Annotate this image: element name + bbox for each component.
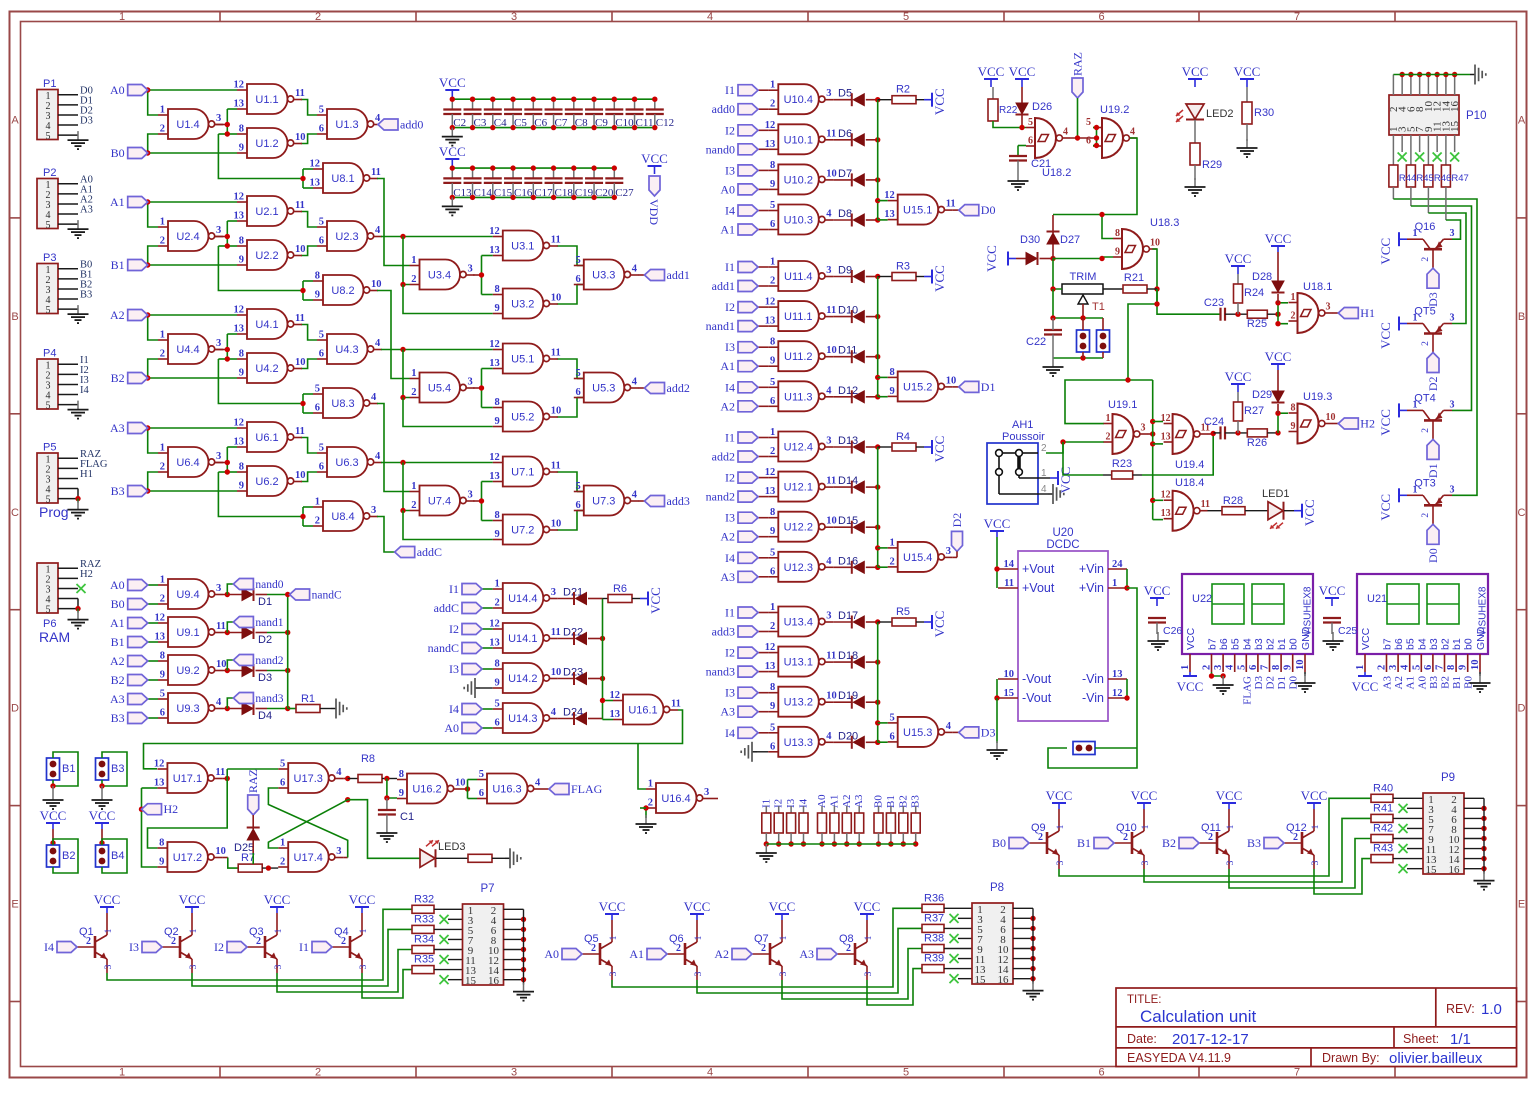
resistor R44: [1392, 135, 1394, 165]
svg-text:11: 11: [551, 235, 561, 246]
net label A2: [128, 310, 148, 321]
wire A0: [148, 89, 237, 91]
svg-text:9: 9: [770, 701, 775, 712]
svg-text:T1: T1: [1092, 301, 1105, 313]
svg-text:11: 11: [551, 627, 561, 638]
schmitt gate U19.1: [1113, 414, 1134, 454]
net label A3: [817, 949, 837, 960]
svg-text:P9: P9: [1441, 772, 1455, 784]
svg-text:C8: C8: [575, 117, 588, 129]
wire U19.3 out: [1332, 423, 1338, 425]
NAND gate U10.2: [778, 164, 819, 194]
svg-text:b1: b1: [1276, 638, 1288, 650]
wire U8.2 input: [218, 245, 227, 247]
svg-text:U18.3: U18.3: [1150, 217, 1179, 229]
svg-text:QT4: QT4: [1414, 392, 1435, 404]
wire bus to U15.3 pin b: [878, 741, 888, 743]
no-connect X: [950, 914, 959, 923]
NAND gate U8.1: [323, 163, 364, 193]
power flag VCC: [1189, 672, 1191, 676]
wire R23 to C24 node: [1133, 474, 1142, 476]
capacitor C17: [532, 168, 534, 178]
svg-text:4: 4: [632, 490, 638, 501]
svg-text:6: 6: [1098, 11, 1104, 23]
svg-text:VCC: VCC: [854, 899, 881, 914]
svg-text:I3: I3: [449, 662, 459, 676]
svg-text:VCC: VCC: [1058, 467, 1073, 494]
svg-text:B3: B3: [80, 290, 92, 301]
NAND gate U11.1: [778, 301, 819, 331]
resistor R42: [1371, 835, 1393, 843]
svg-text:10: 10: [295, 470, 306, 481]
svg-text:+Vout: +Vout: [1022, 562, 1055, 576]
svg-text:10: 10: [1295, 660, 1306, 671]
no-connect X: [1399, 864, 1408, 873]
svg-text:U10.4: U10.4: [784, 94, 813, 106]
svg-text:D1: D1: [258, 596, 272, 608]
svg-text:2: 2: [1421, 513, 1431, 518]
svg-text:6: 6: [770, 219, 775, 230]
wire U14 in a 3: [482, 708, 493, 710]
svg-text:C6: C6: [534, 117, 547, 129]
svg-text:1: 1: [779, 935, 789, 940]
diode D23: [558, 678, 574, 680]
svg-text:DCDC: DCDC: [1046, 539, 1079, 551]
wire feedback to U19.1 pin1: [1065, 289, 1157, 424]
no-connect X: [440, 955, 449, 964]
svg-text:R44: R44: [1399, 173, 1416, 184]
net label A3: [738, 706, 758, 717]
svg-text:13: 13: [154, 778, 165, 789]
svg-text:I2: I2: [725, 471, 735, 485]
svg-text:Q16: Q16: [1415, 221, 1436, 233]
wire bus to R1: [288, 708, 296, 710]
wire in A2: [757, 536, 768, 538]
svg-text:D2: D2: [1426, 377, 1440, 392]
resistor R4: [892, 443, 916, 451]
svg-text:3: 3: [274, 964, 284, 969]
NAND gate U5.3: [584, 373, 625, 403]
wire B3 input: [148, 717, 158, 719]
wire P9 pin 4: [1464, 807, 1484, 809]
wire U7.1 to U7.3: [557, 472, 577, 492]
NAND gate U11.3: [778, 381, 819, 411]
svg-text:D16: D16: [838, 555, 858, 567]
svg-text:12: 12: [1112, 688, 1123, 699]
svg-text:R25: R25: [1247, 318, 1267, 330]
wire jumper loop: [0, 0, 1, 1]
svg-text:VCC: VCC: [1216, 788, 1243, 803]
net label add3: [738, 626, 758, 637]
svg-text:B2: B2: [1162, 836, 1176, 850]
net label A1: [128, 618, 148, 629]
svg-text:B0: B0: [111, 597, 125, 611]
svg-text:5: 5: [1086, 117, 1091, 128]
svg-text:1: 1: [359, 928, 369, 933]
net label RAZ: [1072, 78, 1083, 98]
NAND gate U17.2: [167, 842, 208, 872]
net label I1: [462, 584, 482, 595]
svg-text:13: 13: [234, 437, 245, 448]
svg-text:U11.1: U11.1: [784, 311, 813, 323]
wire in I1: [757, 89, 768, 91]
svg-text:D15: D15: [838, 515, 858, 527]
svg-text:2: 2: [676, 943, 681, 954]
svg-text:8: 8: [239, 462, 244, 473]
wire in A0: [757, 188, 768, 190]
svg-text:13: 13: [310, 178, 321, 189]
NAND gate U13.2: [778, 687, 819, 717]
wire Q3 emitter route: [277, 950, 412, 993]
svg-text:11: 11: [551, 461, 561, 472]
wire in add0: [757, 108, 768, 110]
svg-text:I1: I1: [725, 260, 735, 274]
svg-text:U3.3: U3.3: [592, 270, 615, 282]
svg-text:VCC: VCC: [984, 245, 999, 272]
wire P10 top bus: [1393, 74, 1470, 76]
wire U3.2 to U3.3: [557, 285, 577, 305]
ground: [1332, 632, 1334, 641]
svg-text:R21: R21: [1124, 272, 1144, 284]
capacitor C8: [573, 99, 575, 109]
capacitor C9: [593, 99, 595, 109]
wire U8.3 input: [218, 358, 227, 360]
no-connect X: [440, 975, 449, 984]
svg-text:U16.3: U16.3: [492, 784, 521, 796]
wire in I2: [757, 652, 768, 654]
wire into C23: [1157, 289, 1221, 314]
svg-text:3: 3: [704, 787, 709, 798]
svg-text:8: 8: [315, 271, 320, 282]
svg-text:13: 13: [765, 661, 776, 672]
svg-text:16: 16: [998, 974, 1010, 986]
svg-text:B2: B2: [111, 371, 125, 385]
svg-text:4: 4: [1130, 127, 1135, 138]
svg-text:R30: R30: [1254, 107, 1274, 119]
svg-text:1: 1: [411, 368, 416, 379]
svg-text:b7: b7: [1382, 638, 1394, 650]
ground: [1479, 672, 1481, 676]
svg-text:U1.3: U1.3: [335, 119, 358, 131]
wire P9 pin 6: [1464, 817, 1484, 819]
svg-text:8: 8: [770, 507, 775, 518]
svg-text:I3: I3: [725, 686, 735, 700]
svg-text:Calculation unit: Calculation unit: [1140, 1007, 1257, 1026]
svg-text:3: 3: [1326, 302, 1331, 313]
svg-text:I3: I3: [725, 511, 735, 525]
net label B1: [128, 260, 148, 271]
svg-text:QT5: QT5: [1414, 306, 1435, 318]
svg-text:C14: C14: [474, 187, 493, 199]
wire U18.3 pin8: [1102, 215, 1113, 239]
svg-text:D8: D8: [838, 208, 852, 220]
ground: [1304, 672, 1306, 676]
svg-text:A1: A1: [629, 947, 644, 961]
svg-text:9: 9: [399, 788, 404, 799]
svg-text:C20: C20: [595, 187, 614, 199]
wire U2.1-U2.3: [301, 212, 317, 228]
wire P9 pin 10: [1464, 838, 1484, 840]
svg-text:D18: D18: [838, 650, 858, 662]
svg-text:2: 2: [1377, 665, 1388, 670]
wire U14 in a 1: [482, 628, 493, 630]
power flag VCC: [1008, 258, 1016, 260]
net label D0: [959, 205, 979, 216]
svg-text:REV:: REV:: [1446, 1002, 1475, 1016]
svg-text:3: 3: [1056, 860, 1066, 865]
svg-text:U7.4: U7.4: [428, 496, 451, 508]
svg-text:3: 3: [609, 971, 619, 976]
resistor R32: [412, 905, 434, 913]
svg-text:add2: add2: [712, 450, 735, 464]
wire in nand0: [757, 148, 768, 150]
svg-text:U7.1: U7.1: [511, 467, 534, 479]
svg-text:D0: D0: [981, 203, 996, 217]
wire U17.1 out to U17.3 pin5: [227, 768, 278, 770]
NAND gate U9.2: [168, 655, 209, 685]
NAND gate U11.4: [778, 261, 819, 291]
svg-text:5: 5: [576, 255, 581, 266]
wire down to C1: [387, 779, 397, 799]
svg-text:13: 13: [765, 139, 776, 150]
ground: [1483, 872, 1485, 881]
svg-text:nand0: nand0: [706, 142, 735, 156]
svg-text:9: 9: [770, 356, 775, 367]
net label add2: [738, 451, 758, 462]
capacitor C1: [386, 798, 388, 810]
svg-text:U8.4: U8.4: [331, 511, 354, 523]
svg-text:5: 5: [1236, 665, 1247, 670]
svg-text:3: 3: [694, 971, 704, 976]
svg-text:3: 3: [826, 88, 831, 99]
net label D3: [959, 727, 979, 738]
net label nand1: [738, 321, 758, 332]
svg-text:RAZ: RAZ: [246, 769, 260, 793]
ground: [1470, 74, 1475, 76]
svg-text:D20: D20: [838, 730, 858, 742]
net label I2: [227, 942, 247, 953]
resistor R35: [412, 966, 434, 974]
wire R37 to P8: [944, 927, 972, 929]
svg-text:VCC: VCC: [264, 892, 291, 907]
svg-text:4: 4: [707, 11, 713, 23]
wire A2 input: [148, 660, 158, 662]
wire U8.4 out to addC: [377, 517, 395, 553]
resistor R23: [1112, 471, 1133, 479]
svg-text:8: 8: [495, 659, 500, 670]
schmitt gate U18.3: [1122, 229, 1143, 269]
svg-text:10: 10: [551, 406, 562, 417]
svg-text:9: 9: [770, 526, 775, 537]
wire D10 to bus: [833, 316, 852, 318]
svg-text:R40: R40: [1373, 782, 1393, 794]
wire in I3: [757, 517, 768, 519]
svg-text:H2: H2: [164, 802, 179, 816]
net label B3: [128, 713, 148, 724]
net label B0: [128, 148, 148, 159]
svg-text:nand1: nand1: [706, 319, 735, 333]
wire P9 pin 8: [1464, 827, 1484, 829]
svg-text:3: 3: [946, 546, 951, 557]
no-connect X: [1454, 135, 1456, 152]
svg-text:6: 6: [319, 236, 324, 247]
wire in A1: [757, 365, 768, 367]
net label nand2: [227, 660, 233, 671]
svg-text:1: 1: [160, 217, 165, 228]
svg-text:12: 12: [489, 226, 500, 237]
svg-text:VCC: VCC: [1185, 627, 1197, 650]
svg-text:U14.3: U14.3: [508, 713, 537, 725]
svg-text:C24: C24: [1204, 416, 1224, 428]
svg-text:8: 8: [889, 367, 894, 378]
svg-text:R47: R47: [1451, 173, 1468, 184]
resistor LED3 series: [468, 854, 492, 862]
wire U6.2-U6.3: [301, 472, 317, 482]
svg-text:U9.2: U9.2: [176, 665, 199, 677]
svg-text:U2.4: U2.4: [176, 231, 199, 243]
net label I4: [738, 552, 758, 563]
svg-text:U10.3: U10.3: [784, 215, 813, 227]
svg-text:D14: D14: [838, 475, 858, 487]
wire bus to R2: [878, 99, 892, 101]
net label A3: [128, 423, 148, 434]
svg-text:VCC: VCC: [1144, 583, 1171, 598]
resistor R46: [1427, 135, 1429, 165]
wire Q2 emitter route: [192, 929, 412, 986]
svg-text:VCC: VCC: [1046, 788, 1073, 803]
wire A0 input: [148, 584, 158, 586]
svg-text:B3: B3: [111, 711, 125, 725]
svg-text:VCC: VCC: [1234, 64, 1261, 79]
svg-text:4: 4: [826, 731, 832, 742]
wire bus to U15.2 pin a: [878, 376, 888, 378]
svg-text:LED1: LED1: [1262, 488, 1290, 500]
wire P9 pin 2: [1464, 797, 1484, 799]
svg-text:2: 2: [411, 500, 416, 511]
svg-text:B3: B3: [910, 795, 922, 808]
wire U4.3 out to U5.1 pin12: [381, 349, 493, 351]
svg-text:11: 11: [826, 305, 836, 316]
svg-text:C: C: [11, 507, 19, 519]
svg-text:1: 1: [770, 80, 775, 91]
NAND gate U15.1: [898, 195, 938, 225]
svg-text:FLAG: FLAG: [1241, 676, 1253, 705]
svg-text:B1: B1: [1077, 836, 1091, 850]
svg-text:13: 13: [489, 471, 500, 482]
svg-text:U16.2: U16.2: [412, 784, 441, 796]
net label nandC: [462, 643, 482, 654]
svg-text:2: 2: [1291, 311, 1296, 322]
wire D23 to bus: [588, 678, 603, 680]
svg-text:R32: R32: [414, 893, 434, 905]
svg-text:2: 2: [160, 594, 165, 605]
svg-text:C27: C27: [615, 187, 634, 199]
svg-text:12: 12: [155, 613, 166, 624]
svg-text:1: 1: [1141, 824, 1151, 829]
wire U2.3 out to U3.1 pin12: [381, 236, 493, 238]
svg-text:Drawn By:: Drawn By:: [1322, 1051, 1380, 1065]
resistor R36: [922, 904, 944, 912]
svg-text:VCC: VCC: [1225, 369, 1252, 384]
NAND gate U13.3: [778, 727, 819, 757]
wire in nand3: [757, 671, 768, 673]
NAND gate U10.1: [778, 124, 819, 154]
wire U14 in a 0: [482, 588, 493, 590]
svg-text:U17.3: U17.3: [294, 773, 323, 785]
svg-text:8: 8: [495, 284, 500, 295]
svg-text:6: 6: [479, 788, 484, 799]
wire B2 input: [148, 679, 158, 681]
wire P10 pin 14 up: [1445, 75, 1447, 96]
svg-text:U13.1: U13.1: [784, 657, 813, 669]
svg-text:U8.1: U8.1: [331, 173, 354, 185]
svg-text:3: 3: [359, 964, 369, 969]
svg-text:D3: D3: [1253, 676, 1265, 690]
svg-text:2: 2: [770, 621, 775, 632]
wire B3: [148, 490, 237, 492]
svg-text:VCC: VCC: [769, 899, 796, 914]
wire P7 pin 4: [504, 918, 524, 920]
capacitor C12: [654, 99, 656, 109]
svg-text:Poussoir: Poussoir: [1002, 431, 1045, 443]
wire cap bus bottom: [452, 196, 614, 198]
svg-text:D28: D28: [1252, 271, 1272, 283]
svg-text:4: 4: [216, 697, 222, 708]
ground: [1246, 139, 1248, 148]
svg-text:12: 12: [765, 642, 776, 653]
ground: [1194, 178, 1196, 187]
wire U15.4 out: [953, 556, 957, 558]
svg-text:11: 11: [826, 476, 836, 487]
svg-text:U9.4: U9.4: [176, 589, 199, 601]
svg-text:VCC: VCC: [1009, 64, 1036, 79]
title block: [1116, 988, 1517, 1067]
svg-text:A2: A2: [110, 654, 125, 668]
svg-text:1: 1: [889, 537, 894, 548]
svg-text:9: 9: [495, 416, 500, 427]
NAND gate U3.4: [420, 260, 461, 290]
no-connect X: [1436, 135, 1438, 152]
svg-text:2: 2: [315, 516, 320, 527]
wire D18 to bus: [833, 661, 852, 663]
ground: [1052, 358, 1054, 367]
net label I1: [738, 262, 758, 273]
svg-text:U19.2: U19.2: [1100, 104, 1129, 116]
net label addC: [395, 547, 415, 558]
svg-text:b2: b2: [1265, 638, 1277, 650]
svg-text:B2: B2: [62, 850, 75, 862]
svg-text:4: 4: [632, 377, 638, 388]
svg-text:3: 3: [1141, 423, 1146, 434]
wire U5.3 out: [639, 387, 645, 389]
svg-text:D3: D3: [981, 725, 996, 739]
svg-text:3: 3: [1226, 860, 1236, 865]
svg-text:6: 6: [1248, 665, 1259, 670]
svg-text:11: 11: [671, 699, 681, 710]
svg-text:11: 11: [1201, 499, 1210, 510]
svg-text:B3: B3: [1247, 836, 1261, 850]
svg-text:12: 12: [154, 759, 165, 770]
wire bus U10: [877, 100, 879, 220]
svg-text:D10: D10: [838, 305, 858, 317]
svg-text:3: 3: [551, 587, 556, 598]
wire B0 input: [148, 603, 158, 605]
svg-text:10: 10: [826, 691, 837, 702]
svg-text:12: 12: [234, 192, 245, 203]
svg-text:5: 5: [1411, 665, 1422, 670]
wire U5.2 to U5.3: [557, 398, 577, 418]
svg-text:1: 1: [315, 497, 320, 508]
